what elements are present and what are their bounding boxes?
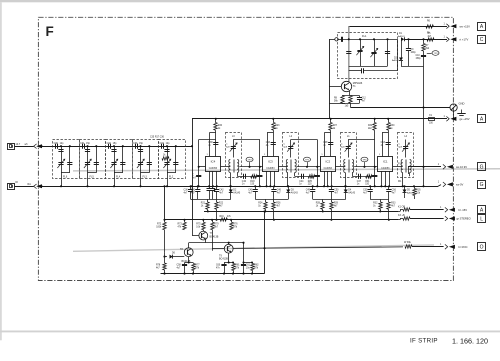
diode D1 [401,37,404,41]
wire L3 left pin down [230,173,232,187]
wire cluster join IC1 [370,199,389,201]
svg-text:CA3053: CA3053 [209,167,218,170]
svg-text:rt +17V: rt +17V [460,37,469,41]
trimmer cap L2 [290,140,292,158]
capacitor C48 [328,142,333,144]
capacitor C56 [388,186,390,189]
trimmer cap L3 [233,140,235,158]
wire circle to base riser [329,39,335,41]
wire IC4 top pin [209,132,211,156]
wire stage1 join extension [191,199,198,201]
wire IC4 bottom pins [209,171,211,186]
wire IC3 bottom pins [266,171,268,186]
svg-text:AA143: AA143 [233,191,241,194]
wire T1 emitter [349,91,351,96]
svg-text:R30: R30 [390,125,395,127]
svg-text:FL3: FL3 [143,175,148,178]
capacitor C34 [161,144,163,149]
capacitor C41 [197,186,199,189]
svg-text:C10: C10 [416,55,421,57]
capacitor FL1 coupling [349,70,362,72]
node A lower [478,115,486,123]
input arrow bottom [34,184,37,189]
capacitor C9 [408,39,410,48]
svg-text:C12: C12 [362,97,367,99]
transistor T1 [341,81,351,91]
wire FL2 bottom link [167,172,176,174]
connector K1 [445,207,448,212]
svg-text:C49: C49 [306,189,311,191]
svg-text:R23: R23 [275,125,280,127]
wire bus2 ground bus [42,186,439,188]
wire bus4 emitter line [165,219,399,221]
transformer L3 box [226,133,242,178]
diode D4 [345,186,347,189]
svg-text:AA143: AA143 [348,191,356,194]
wire supply rail [192,118,447,120]
capacitor C43 [271,142,276,144]
op-amp IC3 [263,157,279,172]
wire tank L2 [291,139,318,141]
wire IC1 right pin [393,166,403,168]
wire T7 emitter [205,239,207,243]
resistor R33 [388,199,390,202]
wire top supply rail [349,26,448,28]
wire bus1 to filters [42,146,193,148]
wire IC4 right pin [221,166,231,168]
resistor R8 [341,96,344,104]
resistor R31 [366,175,373,178]
capacitor FL6 B [67,162,72,164]
filter FL4 box [106,140,133,179]
capacitor input IC3 [257,175,262,177]
resistor R35 [414,186,416,188]
svg-text:AA143: AA143 [392,59,399,62]
node A top [478,23,486,31]
capacitor C58 [184,263,186,265]
svg-text:C32: C32 [107,143,112,145]
wire FL3 bottom link [141,172,150,174]
resistor R22 [216,199,218,202]
svg-text:C50: C50 [334,189,339,191]
svg-text:FL2: FL2 [169,175,174,178]
capacitor C36 stage1 extra [190,186,192,189]
wire ROC output [233,247,403,249]
svg-text:R28: R28 [316,203,321,205]
svg-text:C47: C47 [357,181,362,183]
wire L2 left pin down [287,173,289,187]
wire FL3 branch B [149,146,151,173]
scan artifact top strip [0,0,500,2]
capacitor C12 [359,96,361,98]
node C [478,36,486,44]
svg-text:10.7: 10.7 [16,143,21,146]
wire input bottom [15,186,34,188]
resistor R82 [252,263,254,264]
wire cluster join IC2 [313,199,346,201]
wire sub bottom [401,66,424,68]
connector ROC [445,244,448,249]
wire L1 left pin down [345,173,347,187]
svg-text:ws +15V: ws +15V [460,24,471,28]
filter FL2 box [159,140,186,179]
svg-text:1. 166. 120: 1. 166. 120 [452,336,488,345]
svg-text:R34: R34 [368,125,373,127]
wire FL2 output riser [192,119,194,220]
svg-text:sw 0V: sw 0V [456,183,464,187]
wire IC3 input drop [259,140,261,187]
svg-text:R32: R32 [373,203,378,205]
svg-text:C: C [480,37,484,43]
capacitor C38 [213,142,218,144]
wire M1 zero volt [438,185,441,187]
resistor R23 [273,119,275,123]
trimmer cap L4 [405,140,407,158]
svg-text:O: O [480,245,484,251]
svg-text:C44: C44 [299,181,304,183]
svg-text:R76: R76 [233,223,238,225]
svg-text:R78: R78 [156,264,161,266]
capacitor input IC2 [315,175,320,177]
diode D3 [288,186,290,189]
trimmer inductor FL3 [138,162,143,164]
svg-text:br ROC: br ROC [459,245,468,249]
svg-text:C61: C61 [246,264,251,266]
board frame dash-dot border [38,17,453,280]
resistor R81 [233,263,235,264]
op-amp IC1 [378,157,393,172]
wire IC1 input drop [374,140,376,187]
resistor R20 [215,119,217,123]
wire T8 base link [165,256,168,258]
resistor R21 [207,199,209,202]
capacitor FL4 B [120,162,125,164]
resistor R17 in FL2 [162,157,169,160]
filter FL5 box [80,140,106,179]
svg-text:R79: R79 [214,223,219,225]
svg-text:BC413B: BC413B [219,258,228,261]
terminal circle input FL1 [335,38,338,41]
wire bottom pair row right [224,262,233,264]
wire T9 base [212,248,224,250]
capacitor C39 pin caps [209,186,211,189]
svg-text:R81: R81 [235,264,240,266]
wire tank L1 [348,139,375,141]
resistor R79 [212,220,214,223]
wire L1 right pin down [352,173,354,177]
svg-text:R16: R16 [220,216,225,218]
svg-text:FL4: FL4 [116,175,121,178]
resistor R76 [231,220,233,223]
resistor R72 [163,222,166,229]
capacitor input IC4 [196,175,201,177]
svg-text:C46: C46 [277,189,282,191]
wire tank L4 [405,139,407,141]
svg-text:R26: R26 [276,203,281,205]
wire K1 row [398,211,400,213]
resistor R26 [273,199,275,202]
wire T7 base [192,235,199,237]
svg-text:C35 R17 C36: C35 R17 C36 [150,137,165,139]
svg-text:C31: C31 [80,143,85,145]
wire T9 collector [228,243,230,245]
svg-text:CA3053: CA3053 [324,167,333,170]
svg-text:F: F [46,24,54,39]
trimmer inductor FL2 [164,162,169,164]
svg-text:C30: C30 [54,143,59,145]
svg-text:R29: R29 [334,203,339,205]
node A right [478,206,486,214]
terminal X input 10.7MHz [8,144,15,150]
svg-text:C42: C42 [219,189,224,191]
scan artifact gray line lower [73,245,434,251]
wire T9 emitter down [228,253,230,262]
svg-text:R72: R72 [157,223,162,225]
wire left column bottom [164,252,166,263]
wire IC1 left pin [375,166,378,168]
wire cluster join IC4 [198,199,231,201]
transistor T8 [184,248,193,257]
wire gnd drop [453,111,455,119]
resistor R25 [308,175,315,178]
wire emitter row [189,242,244,244]
svg-text:C34: C34 [160,143,165,145]
svg-text:R24: R24 [258,203,263,205]
capacitor C40 [243,174,245,179]
svg-text:AA143: AA143 [291,191,299,194]
wire coupling IC4 [237,176,260,178]
terminal ground input [8,184,15,190]
svg-text:R22: R22 [219,203,224,205]
input arrow top [34,144,37,149]
svg-text:G: G [480,165,484,171]
svg-text:C53: C53 [381,142,386,144]
capacitor C46 [273,186,275,189]
node G lower [478,181,486,189]
svg-text:FL6: FL6 [63,175,68,178]
resistor R32 [380,199,382,202]
op-amp IC2 [321,157,336,172]
wire IC2 bottom pins [324,171,326,186]
wire FL2 branch A [167,146,169,186]
junction R network [422,38,424,40]
capacitor input IC1 [372,175,377,177]
wire IC4 left pin [199,166,206,168]
svg-text:GND: GND [459,101,465,105]
wire FL1 bottom [349,66,388,68]
svg-text:C58: C58 [177,264,182,266]
node L [478,215,486,223]
wire FL4 bottom link [114,172,123,174]
scan artifact left strip [0,2,2,340]
wire collector feed gray [348,26,350,82]
svg-text:R35: R35 [416,189,421,191]
wire FL5 branch A [87,146,89,186]
wire L2 right pin down [294,173,296,177]
node O [478,243,486,251]
wire cluster join IC3 [255,199,288,201]
capacitor C33 [135,144,137,149]
wire IC2 top pin [324,132,326,156]
svg-text:R82: R82 [254,264,259,266]
capacitor C31 [82,144,84,149]
svg-text:C36: C36 [184,189,189,191]
svg-text:R75: R75 [196,223,201,225]
svg-text:RA: RA [28,183,32,186]
svg-text:R25: R25 [308,181,313,183]
capacitor C42 [216,186,218,189]
diode D6 [170,255,173,259]
capacitor C55 [370,186,372,189]
wire FL5 bottom link [88,172,97,174]
wire coupling IC2 [352,176,375,178]
wire TP link IC4 [239,166,260,168]
wire bottom pair row left [185,262,194,264]
resistor R7 [423,39,425,43]
resistor R30 [388,119,390,123]
svg-text:C38: C38 [208,142,213,144]
capacitor C10 [423,51,425,55]
wire input top [15,146,34,148]
capacitor C5 [338,39,341,41]
resistor R27 [330,119,332,123]
svg-text:FL1: FL1 [362,34,367,38]
resistor R73 [184,220,186,223]
capacitor FL5 shunt [85,149,90,151]
svg-text:R77: R77 [195,264,200,266]
svg-text:IF STRIP: IF STRIP [410,338,438,345]
wire C61 branch [243,243,245,263]
wire FL6 branch B [69,146,71,173]
capacitor C30 [55,144,57,149]
scan artifact gray line upper [73,169,500,171]
capacitor C45 [255,186,257,189]
transformer L3 [229,160,230,163]
wire FL3 branch A [140,146,142,186]
svg-text:R20: R20 [218,125,223,127]
filter FL6 box [53,140,80,179]
svg-text:bl -15V: bl -15V [459,208,468,212]
op-amp IC4 [206,157,221,172]
capacitor C47 [358,174,360,179]
wire emitter bottom [342,103,360,105]
wire IC3 top pin [267,132,269,156]
svg-text:C43: C43 [266,142,271,144]
junction input [40,145,42,147]
wire L3 right pin down [237,173,239,177]
svg-text:150p: 150p [416,58,422,60]
wire IC4 input drop [198,140,200,187]
resistor R28 [322,199,324,202]
transformer L4 [401,160,402,163]
resistor R5h [427,38,434,41]
svg-text:DI: DI [16,181,19,184]
trimmer inductor FL4 [111,162,116,164]
capacitor FL5 B [94,162,99,164]
connector K3 [445,216,448,221]
svg-text:R18: R18 [250,181,255,183]
wire K3 row [398,219,400,221]
ground symbol [461,110,463,114]
scan artifact gray line bottom [0,330,500,332]
stage4 extra riser resistor R34 [374,119,376,123]
capacitor FL3 shunt [138,149,143,151]
resistor R75 [203,220,205,223]
node G top [478,163,486,171]
svg-text:W 39k: W 39k [404,241,412,244]
wire bottom rail [161,273,265,275]
wire T8 emitter down [188,257,190,263]
wire IC1 top pin [382,132,384,156]
capacitor FL3 B [147,162,152,164]
capacitor C60 [224,263,226,265]
svg-text:C55: C55 [363,189,368,191]
wire output drop [264,211,266,273]
svg-text:AA143: AA143 [398,35,405,38]
resistor R6 [426,25,433,28]
transistor T7 [199,231,208,240]
svg-text:R73: R73 [178,223,183,225]
capacitor C61 [243,263,245,265]
capacitor C49 [312,186,314,189]
svg-text:R31: R31 [365,181,370,183]
svg-text:IC3: IC3 [268,159,273,163]
trimmer cap L1 [348,140,350,158]
svg-text:ge +15V: ge +15V [460,117,470,121]
wire T1 base riser [329,39,331,119]
resistor R77 [193,263,195,264]
resistor R29 [331,199,333,202]
svg-text:K3 +B: K3 +B [398,214,405,217]
resistor R18 [251,175,257,178]
wire FL6 bottom link [61,172,70,174]
wire IC4 input top [199,139,216,141]
wire L4 right pin down [409,173,411,177]
transformer L1 box [341,133,357,178]
svg-text:IC1: IC1 [383,159,388,163]
svg-text:gr STEREO: gr STEREO [457,217,471,221]
svg-text:100k: 100k [156,226,162,228]
capacitor FL6 shunt [58,149,63,151]
transformer L2 box [283,133,299,178]
trimmer cap FL1 a [360,39,362,66]
ground chassis GND [450,104,457,111]
wire FL6 branch A [61,146,63,186]
wire coupling IC3 [295,176,318,178]
wire IC1 bottom pins [381,171,383,186]
svg-text:C33: C33 [133,143,138,145]
wire tank L3 [233,139,260,141]
transformer L2 [286,160,288,163]
wire TP link IC2 [354,166,375,168]
wire FL4 branch A [114,146,116,186]
svg-text:FL5: FL5 [90,175,95,178]
trimmer inductor FL6 [58,162,63,164]
test point TP3 [427,53,432,55]
svg-text:C45: C45 [248,189,253,191]
capacitor C44 [301,174,303,179]
wire IC2 right pin [336,166,346,168]
svg-text:L: L [480,216,483,222]
svg-text:CA3053: CA3053 [266,167,275,170]
svg-text:BC413B: BC413B [210,235,219,238]
svg-text:G: G [480,182,484,188]
wire emitter net [342,95,360,97]
wire TP link IC3 [297,166,318,168]
svg-text:IC4: IC4 [211,159,216,163]
svg-text:100p: 100p [411,52,417,54]
svg-text:C40: C40 [242,181,247,183]
